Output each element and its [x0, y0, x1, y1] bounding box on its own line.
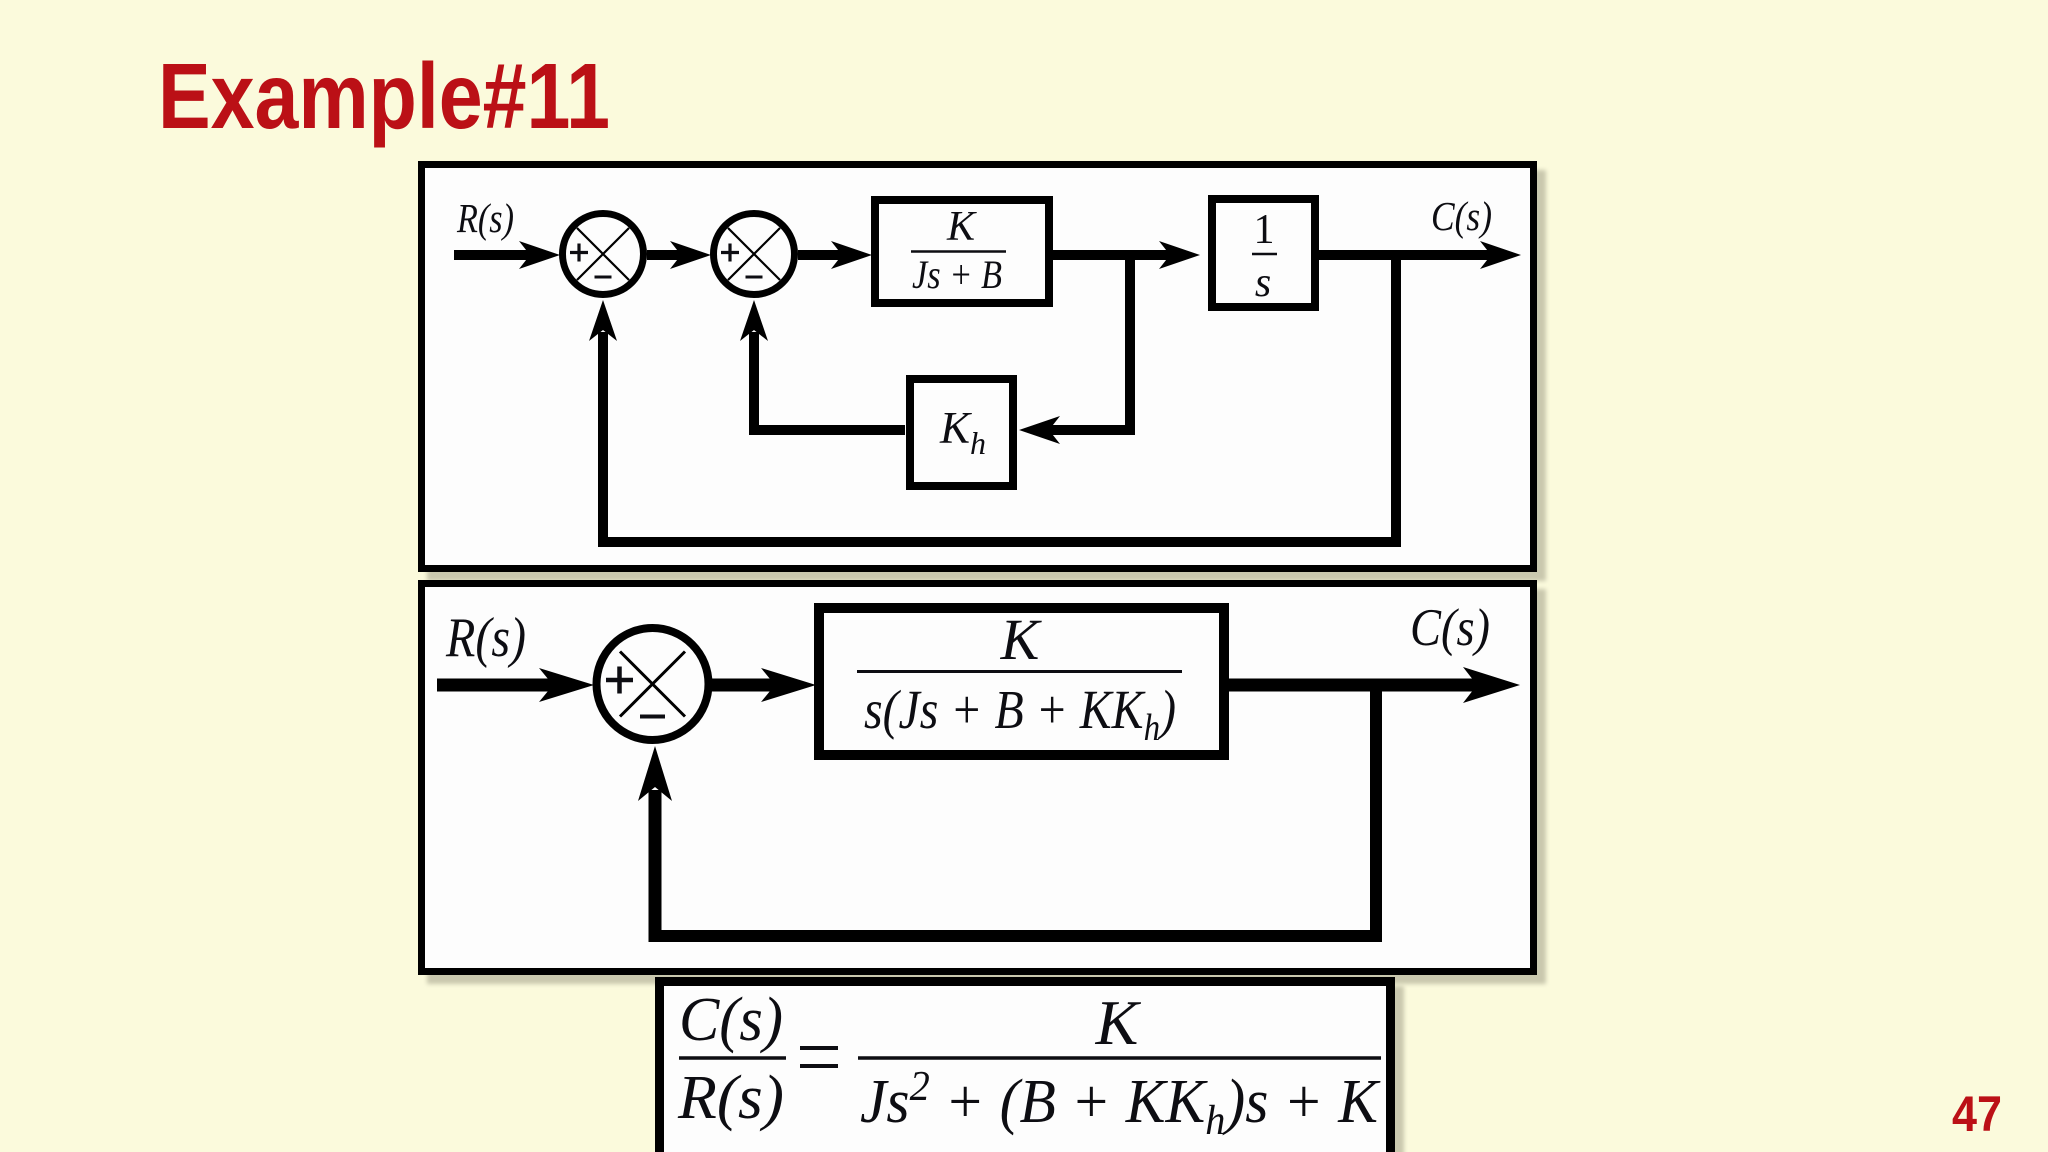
summing junction S1 — [563, 214, 644, 295]
block K/(Js+B) — [875, 200, 1049, 303]
panel 2 frame — [422, 584, 1534, 972]
svg-text:K: K — [1000, 607, 1043, 672]
block 1/s — [1212, 199, 1315, 307]
summing junction S3 panel2 — [597, 628, 709, 740]
arrowhead into block 1/s — [1159, 241, 1200, 269]
wire inner feedback horizontal into Kh — [1047, 425, 1135, 435]
block Kh — [910, 379, 1013, 486]
summing junction S2 — [714, 214, 795, 295]
arrowhead into junction1 — [519, 241, 560, 269]
wire feedback vertical drop panel2 — [1370, 679, 1382, 936]
svg-text:K: K — [1095, 987, 1142, 1058]
wire junction2 to block K/(Js+B) — [798, 250, 844, 260]
arrowhead into junction2 — [670, 241, 711, 269]
svg-text:s: s — [1255, 260, 1271, 306]
svg-text:Js2 + (B + KKh)s + K: Js2 + (B + KKh)s + K — [860, 1064, 1381, 1144]
svg-text:Example#11: Example#11 — [158, 44, 610, 148]
arrowhead into block K/(Js+B) — [831, 241, 872, 269]
arrowhead up into junction2 — [740, 300, 768, 341]
svg-text:47: 47 — [1952, 1086, 2002, 1142]
svg-text:Js + B: Js + B — [912, 252, 1002, 297]
wire block K/(Js+B) to block 1/s — [1053, 250, 1172, 260]
equals sign — [800, 1048, 838, 1066]
svg-text:1: 1 — [1254, 207, 1275, 253]
arrowhead C(s) output — [1480, 241, 1521, 269]
wire feedback vertical rise to junction panel2 — [649, 790, 662, 942]
wire R(s) input — [454, 250, 532, 260]
wire junction to block panel2 — [712, 679, 776, 692]
svg-text:R(s): R(s) — [445, 607, 526, 669]
svg-text:K: K — [946, 204, 977, 250]
wire junction1 to junction2 — [647, 250, 683, 260]
svg-text:R(s): R(s) — [677, 1064, 784, 1132]
wire block 1/s to C(s) — [1319, 250, 1493, 260]
wire outer feedback vertical rise to junction1 — [598, 332, 608, 547]
wire feedback bottom horizontal panel2 — [649, 930, 1382, 942]
wire inner feedback vertical drop at node after K/(Js+B) — [1125, 250, 1135, 430]
wire R(s) input panel2 — [437, 679, 554, 692]
arrowhead into junction panel2 — [539, 668, 594, 702]
formula C(s)/R(s) — [677, 986, 786, 1132]
arrowhead into Kh right side — [1019, 416, 1060, 444]
wire Kh to junction2 horizontal — [749, 425, 905, 435]
wire outer feedback bottom horizontal — [598, 537, 1401, 547]
arrowhead up into junction1 — [589, 300, 617, 341]
panel 2 shadow — [427, 589, 1546, 984]
block K/s(Js+B+KKh) — [819, 607, 1224, 755]
wire Kh feedback vertical rise to junction2 — [749, 332, 759, 430]
svg-text:R(s): R(s) — [456, 195, 514, 241]
svg-text:C(s): C(s) — [1431, 193, 1492, 239]
panel 1 shadow — [427, 170, 1546, 581]
panel 1 frame — [422, 165, 1534, 569]
panel 3 frame — [660, 982, 1391, 1152]
wire block to C(s) panel2 — [1229, 679, 1478, 692]
panel 3 shadow — [664, 986, 1404, 1152]
svg-text:C(s): C(s) — [679, 986, 783, 1054]
arrowhead C(s) output panel2 — [1463, 667, 1520, 703]
svg-text:C(s): C(s) — [1410, 599, 1490, 657]
svg-text:s(Js + B + KKh): s(Js + B + KKh) — [864, 679, 1176, 749]
wire outer feedback vertical drop at node after 1/s — [1391, 250, 1401, 542]
arrowhead into block panel2 — [761, 668, 816, 702]
formula right side K over Js2+(B+KKh)s+K — [858, 987, 1381, 1144]
arrowhead up into junction panel2 — [638, 746, 672, 801]
